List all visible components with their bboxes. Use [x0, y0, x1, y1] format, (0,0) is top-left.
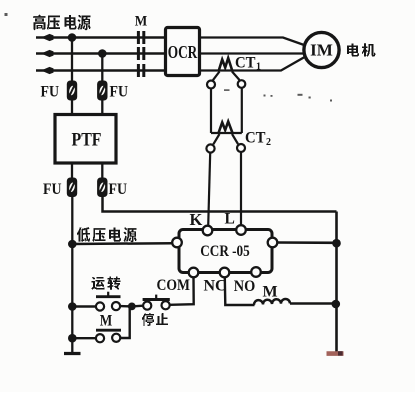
wire PTF to fuse row2 right	[101, 163, 103, 178]
wire CT1 to CT2 right	[241, 88, 243, 133]
CT1 terminal right	[238, 80, 246, 88]
wire rail to M contact	[72, 337, 96, 339]
wire M contact up to node	[120, 307, 129, 338]
svg-text:1: 1	[256, 62, 261, 73]
svg-text:2: 2	[266, 137, 271, 148]
M aux bridge	[96, 329, 121, 332]
svg-text:CT: CT	[235, 54, 256, 71]
node junction left rail / M branch	[68, 334, 77, 343]
svg-text:M: M	[262, 284, 277, 301]
svg-text:IM: IM	[310, 41, 333, 60]
svg-text:M: M	[100, 313, 113, 330]
wire PTF to fuse row2 left	[71, 163, 73, 178]
label 电机 (motor)	[347, 43, 376, 57]
wire CT1 to CT2 left	[210, 89, 212, 134]
wire rail to run button	[72, 305, 96, 307]
wire OCR to motor phase 1	[200, 38, 306, 46]
terminal CCR left	[172, 238, 182, 248]
wire left rail down	[71, 197, 73, 353]
CT2 primary bar	[211, 132, 242, 134]
wire dropper from L2 to PTF	[101, 54, 103, 81]
ground right (earth)	[327, 351, 344, 356]
svg-text:FU: FU	[43, 181, 62, 198]
terminal NC	[220, 268, 230, 278]
node junction run/stop/M	[128, 303, 136, 311]
relay OCR box	[166, 28, 200, 76]
node junction L2/dropper	[98, 49, 107, 58]
svg-text:NC: NC	[204, 278, 227, 295]
fuse FU row2 left	[67, 178, 77, 198]
label 停止 (stop button)	[142, 313, 168, 326]
wire COM drop to stop button	[170, 278, 194, 305]
node junction LV bus / left rail	[68, 240, 77, 249]
svg-text:COM: COM	[157, 277, 191, 294]
stop button contacts	[143, 302, 151, 310]
label 低压电源 (LV supply)	[77, 227, 137, 242]
svg-text:PTF: PTF	[72, 130, 102, 150]
terminal COM	[189, 268, 199, 278]
terminal CCR right	[268, 238, 278, 248]
wire coil to right rail	[290, 302, 337, 305]
node junction right rail / coil	[332, 300, 341, 309]
wire phase L2	[36, 52, 166, 54]
motor IM	[304, 32, 339, 67]
CT2 terminal right	[237, 144, 245, 152]
controller CCR-05 box	[179, 230, 272, 273]
svg-text:OCR: OCR	[168, 42, 198, 62]
svg-text:K: K	[190, 210, 203, 229]
contactor M main contacts	[137, 31, 145, 77]
wire CT2 to terminal L	[240, 152, 242, 225]
wire LV bus to CCR	[72, 242, 172, 245]
svg-text:FU: FU	[41, 84, 60, 101]
svg-text:M: M	[135, 14, 148, 30]
fuse FU row1 left	[67, 81, 77, 101]
CT2 secondary legs	[213, 134, 219, 144]
arrow L1 incoming	[41, 34, 54, 41]
terminal L	[236, 225, 246, 235]
node junction L1/dropper	[68, 33, 77, 42]
CT1 terminal left	[207, 81, 215, 89]
wire OCR to motor phase 3	[200, 57, 306, 71]
stop button bridge (NC)	[143, 298, 170, 301]
wire right rail down	[335, 212, 338, 353]
wire run button to node	[120, 305, 133, 308]
wire phase L1	[36, 36, 166, 38]
M aux contact	[96, 334, 104, 342]
wire fuse to PTF right	[101, 101, 103, 116]
svg-text:CT: CT	[245, 130, 266, 147]
wire NC drop to coil	[225, 278, 255, 306]
coil M (contactor coil)	[254, 299, 290, 305]
box PTF (power transformer)	[55, 115, 116, 164]
CT2 winding	[219, 122, 233, 134]
wire OCR to motor phase 2	[200, 52, 305, 54]
label 高压电源 (HV supply)	[33, 14, 91, 30]
fuse FU row1 right	[97, 81, 107, 101]
arrow L3 incoming	[41, 67, 54, 74]
ground left	[64, 352, 81, 355]
run button contacts	[96, 302, 104, 310]
svg-text:L: L	[225, 211, 235, 228]
terminal NO	[251, 267, 261, 277]
CT2 terminal left	[206, 144, 214, 152]
wire CT2 to terminal K	[208, 153, 210, 226]
wire CCR right to rail	[278, 241, 337, 244]
CT1 secondary legs	[213, 72, 220, 81]
svg-text:CCR -05: CCR -05	[200, 243, 250, 260]
wire right dropper to LV top rail	[103, 197, 337, 212]
label 运转 (run button)	[92, 277, 121, 291]
wire node to stop button	[132, 305, 143, 308]
wire fuse to PTF left	[71, 101, 73, 116]
node junction left rail / run branch	[68, 302, 77, 311]
CT1 winding	[219, 58, 233, 72]
svg-text:FU: FU	[109, 181, 128, 198]
scan specks	[5, 13, 333, 102]
svg-text:NO: NO	[234, 278, 256, 295]
terminal K	[203, 226, 213, 236]
arrow L2 incoming	[41, 50, 54, 57]
run button bridge	[96, 295, 121, 298]
wire dropper from L1 to PTF	[71, 38, 73, 81]
wire phase L3	[36, 69, 166, 71]
fuse FU row2 right	[97, 178, 107, 198]
svg-text:FU: FU	[110, 84, 129, 101]
node junction right rail / CCR	[332, 239, 341, 248]
